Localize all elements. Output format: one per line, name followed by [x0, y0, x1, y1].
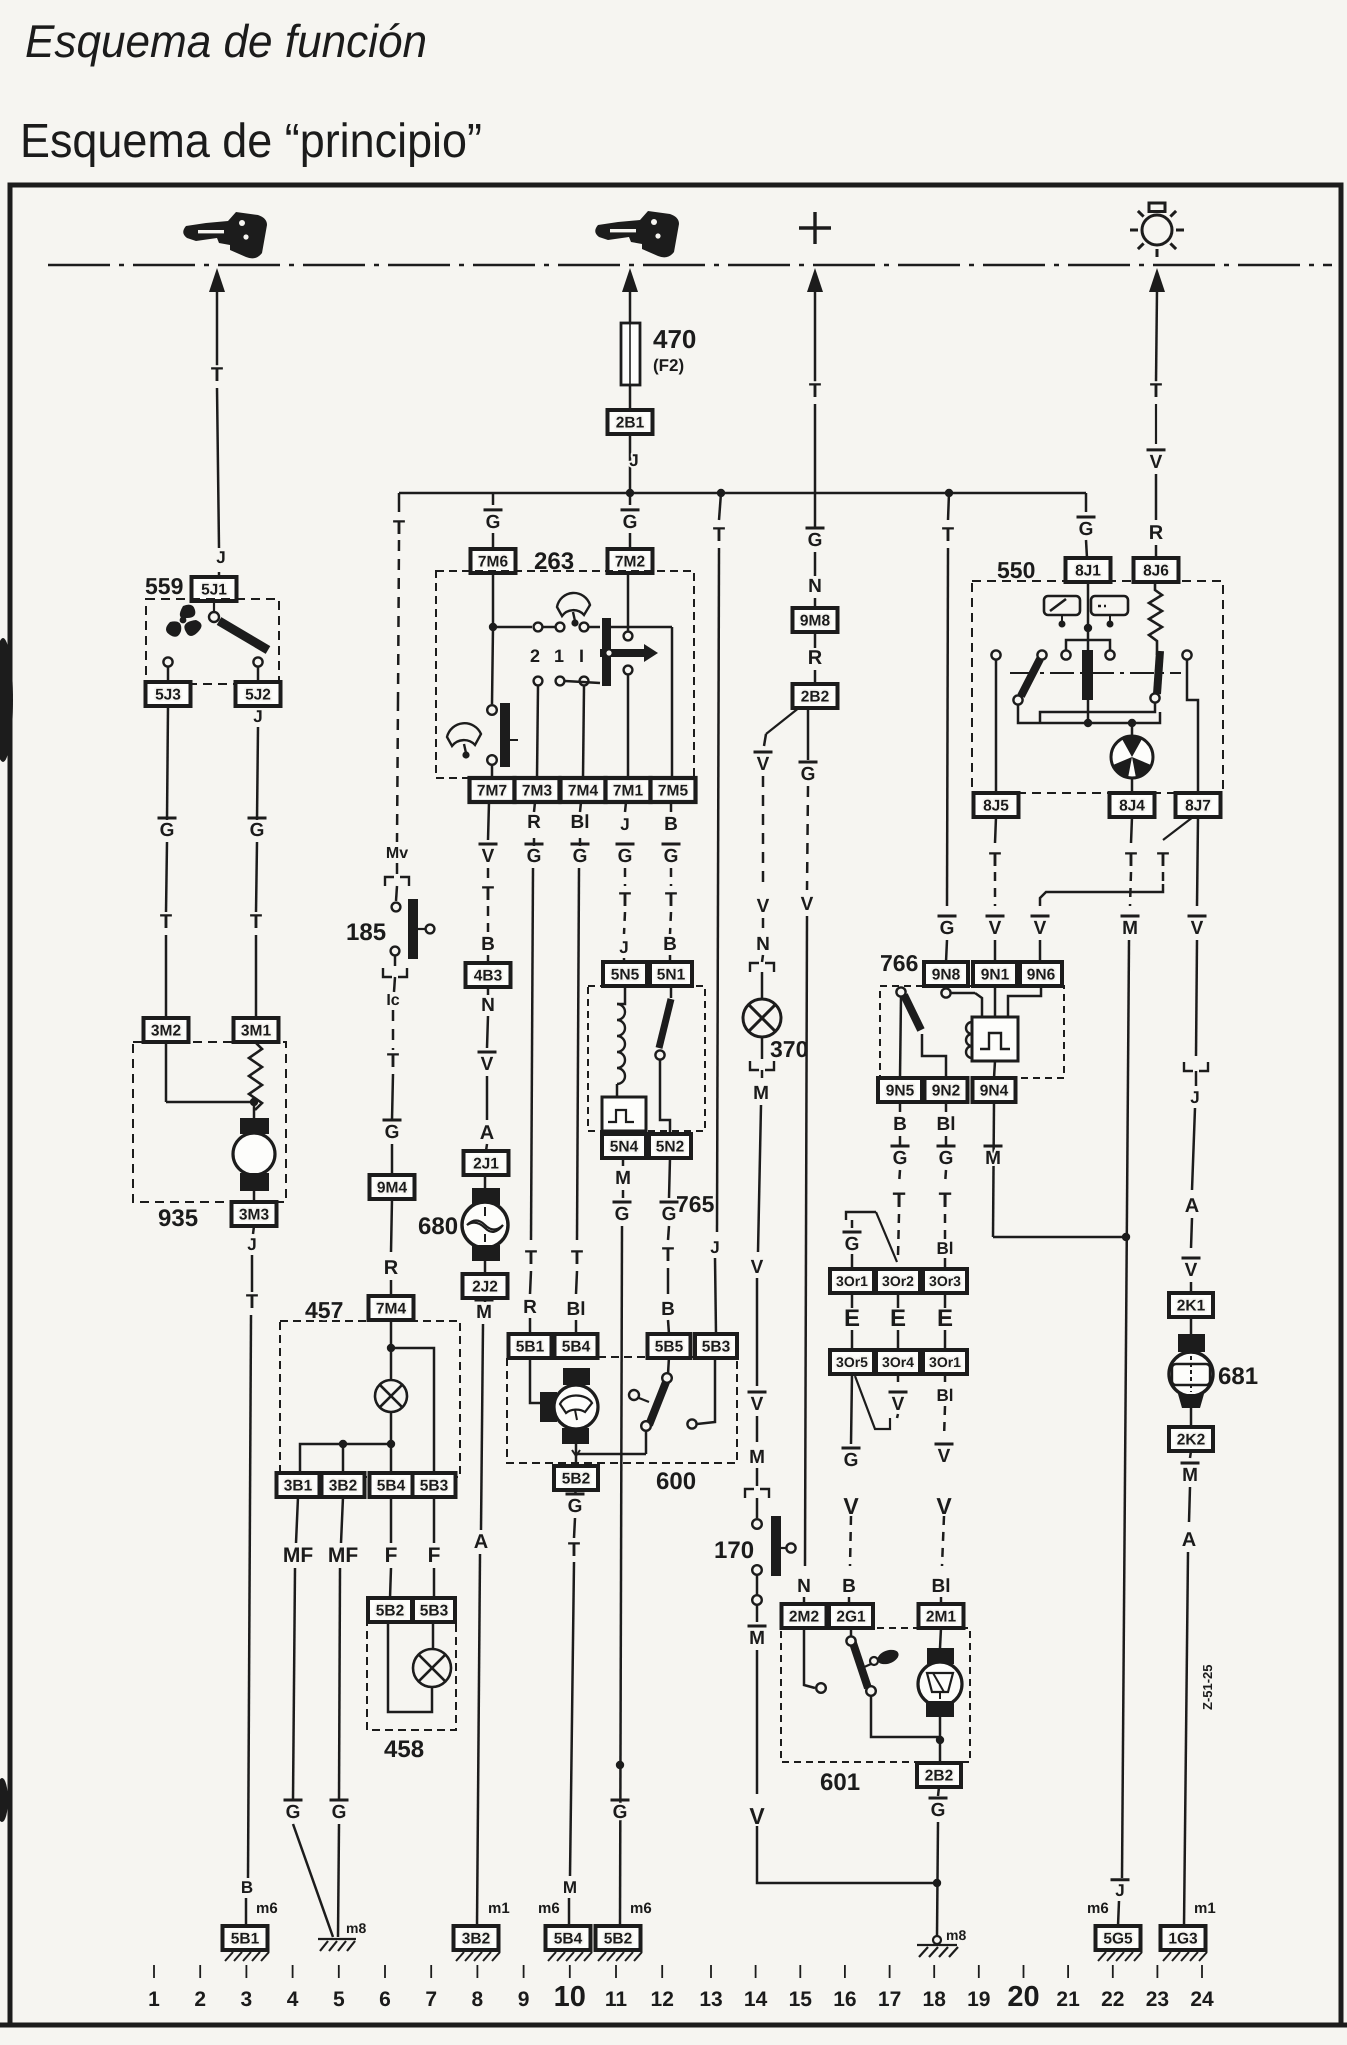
ignition key icon 1 [183, 212, 267, 258]
supply bus dash-dot line [48, 264, 1332, 267]
junction 935 [250, 1098, 258, 1106]
svg-text:3Or1: 3Or1 [836, 1273, 868, 1289]
wire G to T 5J3col [166, 842, 167, 912]
contact 601 lever top [846, 1636, 855, 1645]
svg-text:5N4: 5N4 [610, 1139, 639, 1156]
connector 5B3 (600) [695, 1334, 737, 1358]
svg-text:G: G [385, 1122, 400, 1143]
wire 8J7 diagonal [1163, 817, 1193, 840]
connector 9N2 [925, 1078, 968, 1102]
wire above fuse 470 [629, 290, 632, 323]
contact 263 2 [534, 623, 543, 632]
wire 5J3 to G [167, 706, 168, 820]
svg-text:Bl: Bl [937, 1386, 954, 1405]
resistor 935 [249, 1042, 262, 1110]
connector 9N8 [924, 962, 968, 986]
wire label T 5B1col [525, 1247, 537, 1269]
wire bracket diagonal to 3Or2 [876, 1212, 897, 1262]
connector 3Or2 [876, 1269, 920, 1293]
wire G to 7M2 [629, 533, 632, 549]
wire label M 5N4 [615, 1168, 631, 1189]
wire 3M3 down [253, 1226, 254, 1234]
wire label Bl 3Or1b [937, 1386, 954, 1405]
svg-text:J: J [216, 548, 225, 567]
wire key1 column lower [217, 388, 219, 548]
wire Mv to bracket [396, 863, 399, 874]
wire label R lights [1149, 522, 1164, 544]
connector 7M5 [651, 778, 696, 802]
svg-text:5B5: 5B5 [655, 1339, 684, 1356]
svg-text:J: J [1190, 1088, 1199, 1107]
wire 9N1 to pulse [994, 986, 997, 1017]
wire 550 to 8J7 [1187, 659, 1198, 793]
svg-text:5B2: 5B2 [604, 1931, 632, 1948]
wire N to 2M2 [803, 1597, 806, 1604]
svg-text:A: A [1182, 1529, 1196, 1551]
svg-text:V: V [801, 894, 814, 915]
svg-text:m6: m6 [1087, 1900, 1109, 1917]
svg-text:R: R [527, 812, 541, 833]
wire 5N1 to lever [670, 986, 673, 998]
svg-text:23: 23 [1146, 1988, 1169, 2011]
lamp in 457 [375, 1380, 407, 1412]
wire V to Vbar 170col [756, 1278, 759, 1386]
inline connector above 185 [385, 877, 409, 886]
wire label B 2G1 [842, 1576, 856, 1597]
blower unit 935 dashed box [133, 1042, 286, 1202]
wire Bl to 2M1 [940, 1597, 943, 1604]
wire V to Bl 2M1col [942, 1516, 944, 1566]
wire 935 column long [248, 1315, 251, 1878]
rail tick 7M6 [492, 493, 495, 505]
svg-text:T: T [525, 1247, 537, 1269]
contact 600 lever top [662, 1373, 672, 1383]
svg-text:8J4: 8J4 [1119, 798, 1145, 815]
svg-text:2B2: 2B2 [801, 689, 829, 706]
wire label M2 170col [749, 1447, 765, 1468]
contact 170 lower [752, 1595, 762, 1605]
wire J to A 8J7col [1192, 1108, 1195, 1190]
wire label M 9N4 [984, 1146, 1003, 1169]
wire 2B2 601 down [938, 1787, 939, 1796]
svg-text:M: M [749, 1628, 765, 1649]
wire motor to 3M3 [253, 1191, 256, 1202]
wire M to G 5N4 [622, 1190, 625, 1198]
svg-text:m6: m6 [538, 1900, 560, 1917]
wire label V2 370col [757, 896, 770, 917]
svg-text:V: V [1191, 918, 1204, 939]
svg-text:T: T [1150, 380, 1162, 402]
wire label T 5J2col [250, 911, 262, 933]
svg-text:G: G [618, 846, 633, 867]
wire T to J 7M1col [624, 912, 625, 934]
wire label T 5J3col [160, 911, 172, 933]
wire T to M 8J4 [1130, 872, 1131, 906]
svg-text:2: 2 [194, 1988, 206, 2011]
wire 7M5 down [670, 802, 673, 812]
connector 2J2 [463, 1274, 508, 1298]
connector 5J2 [236, 682, 281, 706]
wire motor bottom to 5B2 [575, 1444, 578, 1466]
contact 550 e [1182, 650, 1191, 659]
wire G to T 9N2 [945, 1170, 946, 1184]
contact 185 side [426, 925, 435, 934]
contact 185 upper [392, 903, 401, 912]
svg-text:G: G [486, 512, 501, 533]
wire label N +col [808, 576, 822, 597]
svg-text:5N1: 5N1 [657, 967, 686, 984]
heater fan motor in 550 [1111, 736, 1153, 778]
wire J to T 935col [251, 1255, 254, 1292]
svg-text:5G5: 5G5 [1103, 1931, 1133, 1948]
switch bar 263 [602, 618, 611, 686]
wire 550 center down [1087, 700, 1090, 723]
svg-text:458: 458 [384, 1736, 424, 1763]
wire lamp down [761, 1037, 764, 1059]
svg-text:G: G [568, 1496, 583, 1517]
wiper icon lower in 263 [447, 723, 481, 757]
svg-text:13: 13 [699, 1988, 722, 2011]
junction rail x fuse column [626, 489, 634, 497]
connector 7M1 [606, 778, 651, 802]
wire pulse to 9N4 [994, 1061, 995, 1078]
wire label B 7M7col [481, 934, 495, 955]
wire key1 column upper [216, 290, 219, 372]
wire label N 7M7col [481, 995, 495, 1016]
relay lever 765 [659, 999, 671, 1048]
svg-text:3Or4: 3Or4 [882, 1354, 914, 1370]
wire label R 7M3 [527, 812, 541, 833]
motor 935 [233, 1118, 275, 1191]
wire label T col559 [211, 364, 223, 386]
rear wiper motor 601 [918, 1648, 962, 1717]
svg-text:I: I [579, 646, 584, 666]
wire B to G 9N5 [899, 1136, 902, 1146]
wire 601 lever return [871, 1696, 940, 1737]
wire label G 185col [383, 1120, 402, 1143]
wire label G 5N4 [613, 1202, 632, 1225]
svg-text:8J5: 8J5 [983, 798, 1009, 815]
wire 5B2col long [570, 1562, 574, 1876]
wire MF2 long [339, 1568, 340, 1800]
svg-text:3M2: 3M2 [151, 1023, 181, 1040]
svg-text:T: T [893, 1189, 906, 1212]
wire 2K2 down [1190, 1451, 1191, 1458]
svg-text:G: G [1079, 519, 1094, 540]
svg-text:B: B [241, 1878, 253, 1897]
wire bracket to contact 170 [756, 1498, 759, 1518]
svg-text:M: M [985, 1148, 1001, 1169]
wire label G 601col [799, 762, 818, 785]
lamp unit 457 dashed box [280, 1321, 460, 1477]
svg-text:Mv: Mv [386, 845, 408, 862]
svg-text:3: 3 [241, 1988, 253, 2011]
contact 5J3 [163, 657, 172, 666]
switch lever 559 [213, 601, 215, 612]
svg-text:Esquema de función: Esquema de función [25, 15, 427, 67]
contact 601 lever bottom [866, 1686, 876, 1696]
ground connector 1G3 [1161, 1926, 1206, 1950]
svg-text:5J2: 5J2 [245, 687, 271, 704]
contact 263 7M2b [624, 666, 633, 675]
connector 7M4 (263) [561, 778, 606, 802]
svg-text:T: T [393, 517, 405, 539]
junction dot 5N4 column [616, 1761, 624, 1769]
svg-text:170: 170 [714, 1537, 754, 1564]
wire label E1 [844, 1305, 860, 1332]
wire label A 7M7col [480, 1122, 494, 1144]
wire G to 9M4 [391, 1144, 394, 1175]
svg-text:V: V [892, 1394, 905, 1415]
svg-text:2: 2 [530, 646, 540, 666]
svg-text:G: G [801, 764, 816, 785]
wire 170col to ground m8 [757, 1826, 937, 1883]
contact 170 upper [752, 1519, 762, 1529]
junction ground m8 [933, 1879, 941, 1887]
ground hatching under 5B1 [225, 1952, 269, 1961]
wire A to 2J1 [486, 1144, 487, 1151]
wire label G 5B2col [566, 1494, 585, 1517]
wire label G 7M3 [525, 844, 544, 867]
wire label M3 170col [748, 1626, 767, 1649]
wire label Bl 5B4col [567, 1299, 586, 1320]
wire bracket to J 8J7col [1195, 1071, 1198, 1086]
connector 2B2 [793, 684, 838, 708]
wire V stub [897, 1414, 898, 1418]
svg-text:7M4: 7M4 [568, 783, 599, 800]
svg-text:3M3: 3M3 [239, 1207, 270, 1224]
ground m8 right [917, 1936, 958, 1957]
svg-text:470: 470 [653, 324, 696, 354]
svg-text:5B1: 5B1 [231, 1931, 260, 1948]
svg-text:9N5: 9N5 [886, 1083, 915, 1100]
svg-text:T: T [482, 883, 494, 905]
svg-text:V: V [757, 754, 770, 775]
lever 601 [852, 1640, 868, 1688]
svg-text:5B2: 5B2 [376, 1603, 404, 1620]
svg-text:B: B [481, 934, 495, 955]
wire label T 8J4 [1125, 849, 1137, 871]
contact 550 a [991, 650, 1000, 659]
dash-dot line through 550 [1010, 672, 1181, 674]
contact 600 lever bottom [641, 1421, 651, 1431]
svg-text:5B3: 5B3 [702, 1339, 731, 1356]
wire V to B 2G1col [850, 1516, 851, 1566]
connector 2M2 [782, 1604, 827, 1628]
svg-text:M: M [476, 1302, 492, 1323]
wire MF1 long [293, 1568, 295, 1800]
svg-text:M: M [749, 1447, 765, 1468]
wire E to 3Or1b [944, 1330, 947, 1350]
wire diag to V [764, 734, 766, 746]
pulse relay box 766 [966, 1017, 1018, 1061]
wire label G 7M5 [662, 844, 681, 867]
svg-text:Bl: Bl [937, 1239, 954, 1258]
svg-text:B: B [663, 934, 677, 955]
svg-text:5B4: 5B4 [562, 1339, 591, 1356]
svg-text:3B1: 3B1 [284, 1478, 313, 1495]
svg-text:21: 21 [1056, 1988, 1080, 2011]
wire label T rail-left [393, 517, 405, 539]
wire T to Bl 5B4col [576, 1271, 577, 1294]
connector 2B2 (601) [917, 1763, 961, 1787]
wire label T 9N2 [939, 1189, 952, 1212]
connector 7M7 [470, 778, 515, 802]
junction rail T-column [717, 489, 725, 497]
svg-text:T: T [568, 1539, 580, 1561]
connector 9N6 [1020, 962, 1062, 986]
wire V to T 7M7col [487, 868, 490, 882]
connector 3Or1 (lower) [923, 1350, 967, 1374]
wire rail-left to Mv lower [397, 700, 398, 842]
wire 9N8 into 766 [945, 986, 948, 988]
fuse 470 (F2) [621, 323, 640, 385]
wire A to V 681col [1191, 1218, 1192, 1248]
wire label G 7M2 [621, 510, 640, 533]
wire T-column long [717, 548, 719, 1232]
wire label T +col [809, 380, 821, 402]
wire T to G 185col [392, 1074, 393, 1120]
wire 263 top row a [493, 626, 532, 629]
svg-text:V: V [749, 1803, 765, 1829]
wire label MF 3B1 [283, 1544, 313, 1567]
wire 681col long [1184, 1552, 1188, 1926]
contact 170 mid [752, 1565, 762, 1575]
svg-text:R: R [523, 1297, 537, 1318]
wire label B2 7M5col [663, 934, 677, 955]
svg-text:V: V [482, 846, 495, 867]
wire 550 branch right [1088, 640, 1110, 655]
wire G to 3Or1 [851, 1254, 854, 1269]
wire Bl to 3Or3 [944, 1258, 947, 1269]
wire down to 7M3 [537, 686, 538, 778]
wire B to 5B5 [668, 1320, 669, 1334]
svg-text:G: G [931, 1800, 946, 1821]
wire T 8J7a down [1162, 872, 1165, 884]
wire pulse to 5N4 [623, 1131, 626, 1134]
wire T to V [1155, 404, 1157, 444]
wire 3Or4 down [897, 1374, 900, 1382]
svg-text:G: G [844, 1450, 859, 1471]
connector 3B2 [322, 1473, 365, 1497]
arrow to bus, lights column [1149, 268, 1165, 292]
gauge icon 2 in 550 [1091, 596, 1128, 626]
connector 4B3 [466, 963, 511, 987]
wire label G 7M1 [616, 844, 635, 867]
wire 263 down to 7M5 [671, 627, 674, 778]
wire 9N6 to pulse [1008, 986, 1041, 1017]
svg-text:T: T [665, 889, 677, 911]
junction 263 left [489, 623, 497, 631]
wire label T 935col [246, 1291, 258, 1313]
svg-text:T: T [250, 911, 262, 933]
wire label A 681col [1182, 1529, 1196, 1551]
svg-text:G: G [613, 1802, 628, 1823]
svg-text:m6: m6 [256, 1900, 278, 1917]
svg-text:9N1: 9N1 [981, 967, 1010, 984]
rear wiper 601 dashed box [781, 1628, 970, 1762]
svg-text:R: R [384, 1257, 399, 1279]
switch bar 263 washer [500, 703, 510, 767]
wire 550 8J5 up [995, 659, 998, 793]
wire label T 5B2col [568, 1539, 580, 1561]
svg-text:MF: MF [328, 1544, 358, 1567]
svg-text:680: 680 [418, 1213, 458, 1240]
wire 5B3 to F [433, 1497, 436, 1543]
svg-text:1: 1 [554, 646, 564, 666]
wire label T 7M5col [665, 889, 677, 911]
connector 5J3 [146, 682, 191, 706]
wire 766 contact to pulse [951, 992, 975, 995]
connector 7M3 [515, 778, 560, 802]
contact 263 7M2 [624, 632, 633, 641]
connector 8J7 [1176, 793, 1221, 817]
svg-text:N: N [797, 1576, 811, 1597]
wire label V 7M7 [479, 844, 498, 867]
wire T to B 7M5col [670, 912, 671, 934]
wire to 7M7 [491, 765, 494, 778]
svg-text:V: V [989, 918, 1002, 939]
svg-text:601: 601 [820, 1769, 860, 1796]
wire 170col lower [756, 1650, 759, 1794]
wire 8J1 into 550 [1087, 582, 1090, 628]
svg-text:F: F [385, 1544, 398, 1567]
svg-text:E: E [937, 1305, 953, 1332]
wire 550 bus2 [1040, 702, 1155, 723]
ground connector 5B1 [223, 1926, 268, 1950]
contact 263 wash lower [487, 755, 497, 765]
wire 5B5 into 600 [668, 1357, 669, 1374]
ground hatching under 5B4 [548, 1952, 592, 1961]
wire MF2 to ground [338, 1824, 339, 1937]
contact 600 right [687, 1419, 696, 1428]
wire M to 5B4 gnd [568, 1898, 571, 1926]
brake switch 170 actuator [771, 1516, 781, 1576]
svg-text:E: E [890, 1305, 906, 1332]
wire 263 top row to 7M5 branch [611, 626, 672, 629]
wire label V 681col [1182, 1258, 1201, 1281]
wire 3Or2 to E [897, 1293, 900, 1308]
svg-text:765: 765 [676, 1191, 715, 1217]
wire 9N2 down [945, 1102, 948, 1112]
wire pump 681 down [1190, 1408, 1193, 1427]
svg-text:M: M [615, 1168, 631, 1189]
wire V to M 170col [756, 1416, 759, 1442]
wire 3M2 inside 935 [165, 1042, 168, 1102]
inline connector bracket above 3Or1 [846, 1212, 876, 1220]
wire label V-bar lights [1147, 450, 1166, 473]
svg-text:2J1: 2J1 [473, 1156, 499, 1173]
svg-text:G: G [845, 1234, 860, 1255]
connector 7M2 [608, 549, 653, 573]
svg-text:9M4: 9M4 [377, 1180, 408, 1197]
wire E to 3Or5 [851, 1330, 854, 1350]
connector 9N4 [973, 1078, 1016, 1102]
connector 9M4 [370, 1175, 415, 1199]
ground hatching under 5B2 [598, 1952, 642, 1961]
wire J to G 5J2col [257, 727, 258, 820]
svg-text:N: N [808, 576, 822, 597]
connector 8J1 [1066, 558, 1111, 582]
junction 457 top [387, 1344, 395, 1352]
wiper icon top in 263 [557, 593, 590, 625]
contact 263 low1 [556, 677, 565, 686]
wire 550 branch left [1066, 640, 1088, 655]
contact 263 lowI [580, 677, 589, 686]
wire label J above 5G5 [1111, 1880, 1130, 1900]
connector 9N5 [878, 1078, 922, 1102]
wire label J 7M1 [620, 815, 629, 834]
